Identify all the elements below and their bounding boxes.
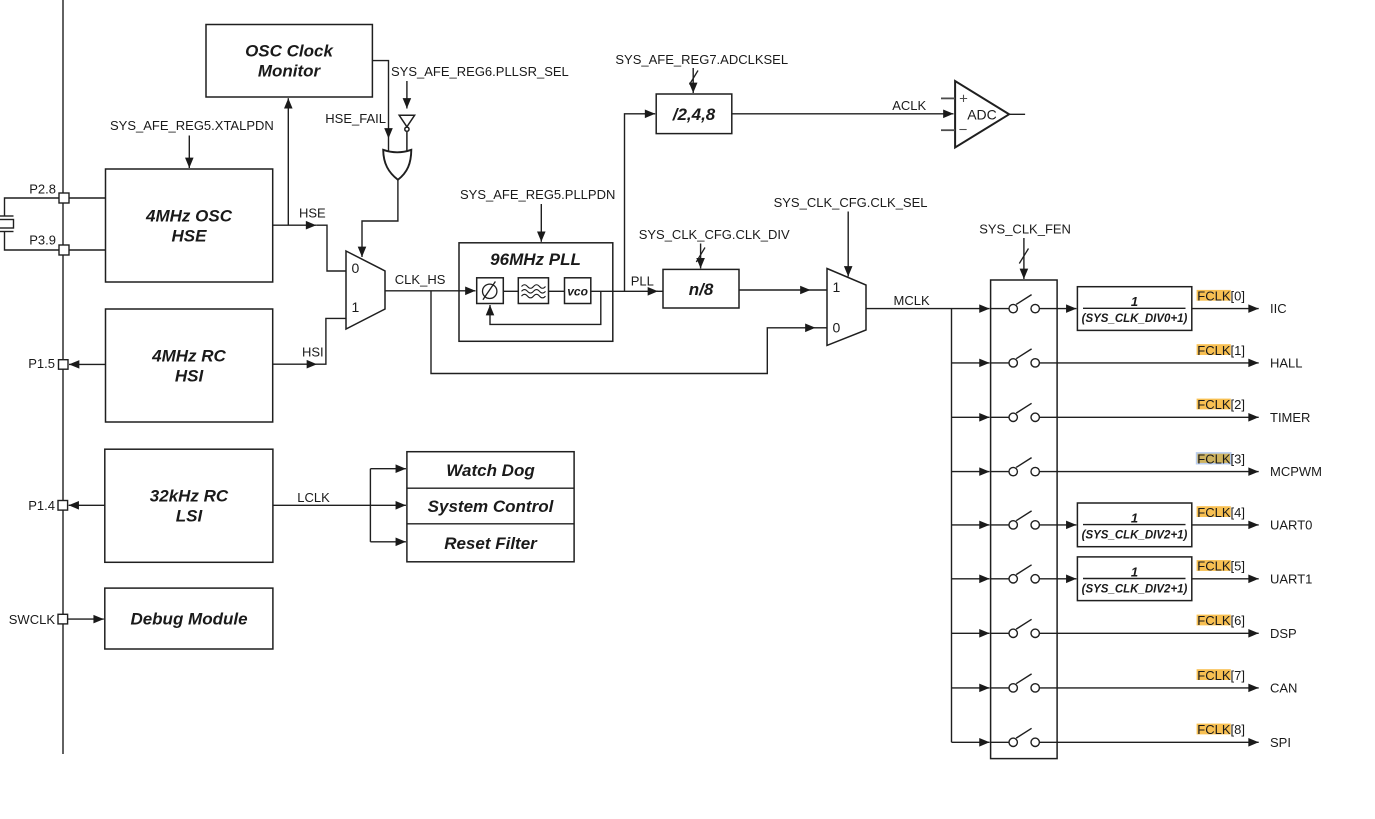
mux1: [346, 251, 385, 329]
switch SW8 (SPI): [991, 728, 1058, 746]
wire LCLK to Watch Dog: [370, 468, 406, 470]
wire ACLK to ADC: [732, 113, 954, 115]
wire monitor to HSE_FAIL: [372, 61, 388, 151]
svg-text:FCLK[8]: FCLK[8]: [1197, 722, 1245, 737]
wire SYS_CLK_FEN arrow into switch box: [1023, 238, 1025, 279]
svg-text:FCLK[7]: FCLK[7]: [1197, 668, 1245, 683]
clock-gate switch box: [991, 280, 1058, 759]
wire LSI to P1.4: [69, 504, 105, 506]
svg-text:FCLK[5]: FCLK[5]: [1197, 559, 1245, 574]
or-gate (HSE_FAIL | PLLSR_SEL): [383, 150, 411, 180]
block Debug Module: [105, 588, 273, 649]
net label FCLK[7]: [1197, 668, 1245, 683]
wire MCLK branch row 2: [952, 416, 990, 418]
block n/8: [663, 269, 739, 308]
switch SW6 (DSP): [991, 619, 1058, 637]
svg-text:1: 1: [1131, 510, 1138, 525]
svg-text:FCLK[4]: FCLK[4]: [1197, 505, 1245, 520]
svg-text:SYS_AFE_REG5.XTALPDN: SYS_AFE_REG5.XTALPDN: [110, 118, 274, 133]
net label FCLK[3]: [1197, 452, 1245, 467]
svg-text:P1.5: P1.5: [28, 356, 55, 371]
svg-text:HSI: HSI: [175, 367, 205, 386]
vco box: [565, 278, 591, 304]
ADC output stub: [1009, 113, 1025, 115]
wire HSI out to mux1 input 1: [273, 318, 346, 364]
svg-text:32kHz RC: 32kHz RC: [150, 487, 229, 506]
wire MCLK branch row 6: [952, 632, 990, 634]
bus slash SYS_CLK_FEN: [1019, 249, 1028, 264]
svg-text:TIMER: TIMER: [1270, 410, 1310, 425]
wire HSI to P1.5: [69, 363, 106, 365]
switch SW5 (UART1): [991, 565, 1058, 583]
svg-text:(SYS_CLK_DIV2+1): (SYS_CLK_DIV2+1): [1082, 529, 1188, 541]
block /2,4,8: [656, 94, 732, 134]
svg-text:0: 0: [352, 260, 360, 276]
svg-text:FCLK[3]: FCLK[3]: [1197, 452, 1245, 467]
svg-text:LCLK: LCLK: [297, 490, 330, 505]
svg-text:96MHz PLL: 96MHz PLL: [490, 250, 581, 269]
pin P1.4: [28, 498, 67, 513]
wire FCLK[5] to UART1: [1192, 578, 1259, 580]
block OSC Clock Monitor: [206, 25, 372, 98]
wire XTALPDN arrow into HSE: [188, 136, 190, 169]
svg-text:SYS_CLK_CFG.CLK_DIV: SYS_CLK_CFG.CLK_DIV: [639, 227, 790, 242]
wire P3.9 to HSE block: [69, 249, 106, 251]
crystal Y1 body: [0, 220, 14, 229]
svg-text:SYS_CLK_CFG.CLK_SEL: SYS_CLK_CFG.CLK_SEL: [774, 195, 928, 210]
ADC input stub +: [941, 97, 955, 99]
svg-text:Monitor: Monitor: [258, 62, 322, 81]
wire P2.8 to HSE block: [69, 197, 106, 199]
bus slash ADCLKSEL: [690, 71, 699, 85]
wire CLK_DIV arrow into n/8: [700, 244, 702, 269]
wire MCLK branch row 7: [952, 687, 990, 689]
wire or-gate to mux1 select: [362, 180, 398, 257]
svg-text:HSE: HSE: [172, 227, 208, 246]
wire PLL to /2,4,8 divider: [625, 114, 656, 291]
svg-text:P1.4: P1.4: [28, 498, 55, 513]
svg-text:Debug Module: Debug Module: [130, 610, 247, 629]
wire MCLK branch row 1: [952, 362, 990, 364]
divider block 1/(SYS_CLK_DIV0+1): [1077, 287, 1191, 331]
wire SWCLK to Debug Module: [68, 618, 104, 620]
svg-text:HSE: HSE: [299, 206, 326, 221]
crystal Y1 top plate: [0, 215, 14, 217]
net label FCLK[8]: [1197, 722, 1245, 737]
svg-text:1: 1: [833, 279, 841, 295]
wire CLK_HS mux1 to PLL: [385, 290, 476, 292]
divider block 1/(SYS_CLK_DIV2+1): [1077, 503, 1191, 547]
wire FCLK[8] to SPI: [1057, 741, 1259, 743]
wire LCLK to Reset Filter: [370, 541, 406, 543]
switch SW4 (UART0): [991, 511, 1058, 529]
svg-text:/2,4,8: /2,4,8: [672, 105, 716, 124]
svg-text:0: 0: [833, 320, 841, 336]
wire switch SW4 to divider: [1057, 524, 1076, 526]
svg-text:1: 1: [1131, 564, 1138, 579]
svg-text:DSP: DSP: [1270, 626, 1297, 641]
wire MCLK branch row 4: [952, 524, 990, 526]
svg-text:vco: vco: [567, 285, 588, 299]
block 96MHz PLL: [459, 243, 613, 341]
wire FCLK[3] to MCPWM: [1057, 471, 1259, 473]
svg-text:Reset Filter: Reset Filter: [444, 534, 538, 553]
svg-text:FCLK[2]: FCLK[2]: [1197, 397, 1245, 412]
wire PLLPDN arrow into PLL block: [540, 204, 542, 242]
svg-text:FCLK[1]: FCLK[1]: [1197, 343, 1245, 358]
wire FCLK[7] to CAN: [1057, 687, 1259, 689]
svg-text:+: +: [959, 91, 968, 108]
wire vco to PLL output: [591, 290, 658, 292]
svg-text:UART1: UART1: [1270, 571, 1312, 586]
svg-text:SWCLK: SWCLK: [9, 612, 56, 627]
pin P2.8: [29, 182, 69, 204]
pin SWCLK: [9, 612, 68, 627]
wire LCLK: [273, 469, 371, 542]
wire PLLSR_SEL arrow into inverter: [406, 81, 408, 109]
block 4MHz RC HSI: [106, 309, 273, 422]
wire switch SW5 to divider: [1057, 578, 1076, 580]
svg-text:LSI: LSI: [176, 507, 204, 526]
wire HSE to OSC monitor: [287, 98, 289, 225]
svg-text:System Control: System Control: [428, 497, 555, 516]
svg-text:(SYS_CLK_DIV2+1): (SYS_CLK_DIV2+1): [1082, 583, 1188, 595]
wire MCLK bus vertical: [951, 309, 953, 743]
svg-text:MCPWM: MCPWM: [1270, 464, 1322, 479]
wire MCLK branch row 8: [952, 741, 990, 743]
wire FCLK[0] to IIC: [1192, 308, 1259, 310]
svg-text:SYS_AFE_REG6.PLLSR_SEL: SYS_AFE_REG6.PLLSR_SEL: [391, 64, 569, 79]
wire n/8 to mux2 input 1: [739, 289, 827, 291]
wire pd to filter: [503, 290, 518, 292]
chip boundary line: [62, 0, 64, 754]
loop filter box: [518, 278, 548, 304]
svg-text:IIC: IIC: [1270, 301, 1287, 316]
crystal Y1 bottom plate: [0, 231, 14, 233]
svg-text:SYS_AFE_REG7.ADCLKSEL: SYS_AFE_REG7.ADCLKSEL: [615, 52, 788, 67]
svg-text:4MHz OSC: 4MHz OSC: [145, 207, 233, 226]
net label FCLK[6]: [1197, 613, 1245, 628]
svg-text:4MHz RC: 4MHz RC: [151, 347, 226, 366]
svg-text:HSE_FAIL: HSE_FAIL: [325, 111, 386, 126]
svg-text:PLL: PLL: [631, 274, 654, 289]
wire switch SW0 to divider: [1057, 308, 1076, 310]
wire P2.8 to crystal: [5, 198, 60, 216]
svg-text:SYS_CLK_FEN: SYS_CLK_FEN: [979, 221, 1071, 236]
svg-text:FCLK[6]: FCLK[6]: [1197, 613, 1245, 628]
svg-text:HALL: HALL: [1270, 356, 1303, 371]
net label FCLK[1]: [1197, 343, 1245, 358]
pin P1.5: [28, 356, 68, 371]
svg-text:P3.9: P3.9: [29, 233, 56, 248]
wire filter to vco: [549, 290, 565, 292]
block 4MHz OSC HSE: [106, 169, 273, 282]
svg-text:SPI: SPI: [1270, 735, 1291, 750]
block 32kHz RC LSI: [105, 449, 273, 562]
svg-text:−: −: [959, 122, 968, 139]
divider block 1/(SYS_CLK_DIV2+1): [1077, 557, 1191, 601]
ADC triangle: [955, 81, 1009, 148]
wire MCLK mux2 to switch box: [866, 308, 990, 310]
wire MCLK branch row 5: [952, 578, 990, 580]
svg-text:1: 1: [1131, 294, 1138, 309]
svg-text:(SYS_CLK_DIV0+1): (SYS_CLK_DIV0+1): [1082, 313, 1188, 325]
svg-text:n/8: n/8: [689, 280, 714, 299]
wire FCLK[4] to UART0: [1192, 524, 1259, 526]
wire CLK_SEL arrow into mux2: [847, 212, 849, 277]
svg-text:OSC Clock: OSC Clock: [245, 42, 334, 61]
mux2: [827, 269, 866, 346]
wire ADCLKSEL arrow into /2,4,8: [692, 68, 694, 93]
switch SW3 (MCPWM): [991, 458, 1058, 476]
net label FCLK[0]: [1197, 289, 1245, 304]
wire FCLK[1] to HALL: [1057, 362, 1259, 364]
wire HSE out to mux1 input 0: [273, 225, 346, 271]
wire crystal to P3.9: [5, 232, 60, 251]
switch SW2 (TIMER): [991, 403, 1058, 421]
svg-text:1: 1: [352, 299, 360, 315]
wire FCLK[6] to DSP: [1057, 632, 1259, 634]
svg-text:ACLK: ACLK: [892, 98, 926, 113]
net label FCLK[5]: [1197, 559, 1245, 574]
switch SW7 (CAN): [991, 674, 1058, 692]
svg-text:HSI: HSI: [302, 345, 324, 360]
ADC input stub -: [941, 129, 955, 131]
pin P3.9: [29, 233, 69, 256]
switch SW1 (HALL): [991, 349, 1058, 367]
svg-text:UART0: UART0: [1270, 518, 1312, 533]
svg-text:CLK_HS: CLK_HS: [395, 272, 446, 287]
net label FCLK[2]: [1197, 397, 1245, 412]
switch SW0 (IIC): [991, 295, 1058, 313]
net label FCLK[4]: [1197, 505, 1245, 520]
svg-text:MCLK: MCLK: [894, 293, 930, 308]
svg-text:SYS_AFE_REG5.PLLPDN: SYS_AFE_REG5.PLLPDN: [460, 187, 615, 202]
PLL feedback wire: [490, 291, 601, 324]
svg-text:Watch Dog: Watch Dog: [446, 461, 535, 480]
wire LCLK to System Control: [370, 504, 406, 506]
wire MCLK branch row 3: [952, 471, 990, 473]
svg-text:P2.8: P2.8: [29, 182, 56, 197]
wire FCLK[2] to TIMER: [1057, 416, 1259, 418]
block Watch Dog / System Control / Reset Filter: [407, 452, 574, 562]
svg-text:ADC: ADC: [967, 106, 997, 122]
bus slash CLK_DIV: [696, 248, 705, 263]
inverter: [399, 115, 414, 150]
phase detector box: [477, 278, 504, 304]
svg-text:CAN: CAN: [1270, 681, 1297, 696]
svg-text:FCLK[0]: FCLK[0]: [1197, 289, 1245, 304]
wire CLK_HS bypass to mux2 input 0: [431, 291, 827, 374]
